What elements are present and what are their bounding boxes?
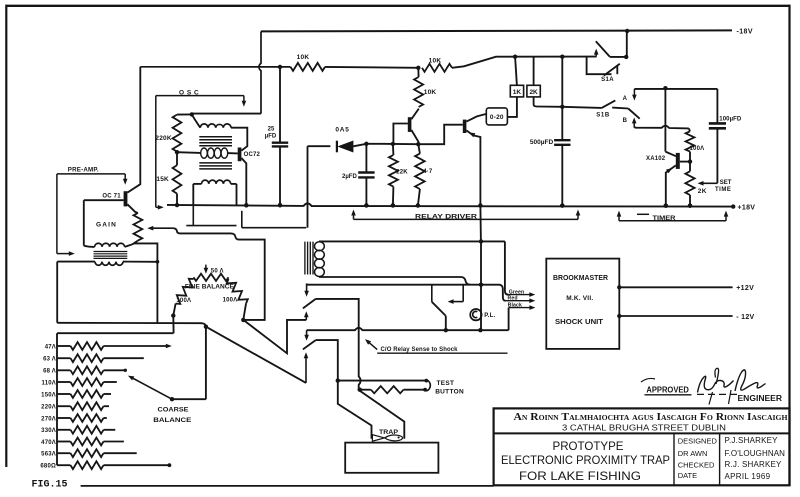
svg-text:XA102: XA102 [646, 156, 666, 162]
svg-text:1K: 1K [513, 89, 522, 96]
svg-text:R.J. SHARKEY: R.J. SHARKEY [725, 460, 783, 469]
svg-text:SHOCK UNIT: SHOCK UNIT [555, 319, 604, 326]
svg-text:10K: 10K [424, 89, 437, 96]
svg-text:FOR LAKE FISHING: FOR LAKE FISHING [519, 469, 641, 483]
svg-text:4·7: 4·7 [423, 169, 433, 175]
svg-text:FIG.15: FIG.15 [32, 480, 68, 491]
svg-text:CHECKED: CHECKED [678, 460, 715, 469]
svg-text:150Λ: 150Λ [41, 392, 56, 398]
svg-text:220Λ: 220Λ [41, 405, 56, 411]
svg-text:F.O'LOUGHNAN: F.O'LOUGHNAN [725, 449, 786, 458]
svg-text:220K: 220K [155, 135, 171, 142]
svg-text:DATE: DATE [678, 471, 697, 480]
svg-text:APRIL 1969: APRIL 1969 [725, 472, 771, 481]
svg-text:APPROVED: APPROVED [646, 385, 689, 394]
svg-text:25: 25 [268, 126, 275, 132]
svg-text:DESIGNED: DESIGNED [678, 437, 718, 446]
svg-text:Red: Red [508, 296, 518, 302]
svg-text:µFD: µFD [265, 133, 277, 139]
svg-text:PROTOTYPE: PROTOTYPE [553, 439, 624, 453]
svg-text:An Roinn Talmhaiochta agus I: An Roinn Talmhaiochta agus Iascaigh Fo R… [514, 412, 789, 423]
svg-text:47Λ: 47Λ [45, 344, 56, 350]
svg-text:P.L.: P.L. [484, 313, 495, 319]
svg-text:ENGINEER: ENGINEER [738, 394, 783, 403]
svg-text:68 Λ: 68 Λ [43, 369, 56, 375]
svg-text:100Λ: 100Λ [223, 297, 238, 303]
svg-text:3 CATHAL BRUGHA STREET DUBL: 3 CATHAL BRUGHA STREET DUBLIN [562, 424, 726, 433]
svg-text:A: A [623, 96, 628, 102]
svg-text:10K: 10K [297, 54, 310, 61]
svg-text:OC72: OC72 [244, 152, 261, 158]
svg-text:270Λ: 270Λ [41, 416, 56, 422]
svg-text:63 Λ: 63 Λ [43, 357, 56, 363]
svg-text:100µFD: 100µFD [719, 117, 742, 123]
svg-text:Green: Green [509, 289, 525, 295]
svg-text:680Ω: 680Ω [40, 464, 56, 470]
svg-text:110Λ: 110Λ [42, 380, 56, 386]
svg-text:563Λ: 563Λ [41, 452, 56, 458]
svg-text:-18V: -18V [737, 28, 753, 35]
svg-text:2K: 2K [529, 89, 538, 96]
svg-text:OC 71: OC 71 [102, 193, 121, 199]
svg-text:BROOKMASTER: BROOKMASTER [553, 275, 608, 282]
svg-text:TIME: TIME [715, 187, 731, 193]
svg-text:- 12V: - 12V [736, 314, 754, 321]
svg-text:TIMER: TIMER [653, 216, 677, 222]
svg-text:+12V: +12V [736, 285, 754, 292]
svg-text:BUTTON: BUTTON [435, 389, 464, 396]
svg-text:2K: 2K [698, 188, 707, 195]
svg-text:10K: 10K [429, 58, 442, 65]
svg-text:15K: 15K [156, 176, 169, 183]
svg-text:330Λ: 330Λ [41, 428, 56, 434]
svg-text:ELECTRONIC PROXIMITY TRAP: ELECTRONIC PROXIMITY TRAP [501, 453, 670, 467]
svg-text:+18V: +18V [738, 205, 756, 212]
svg-text:GAIN: GAIN [96, 222, 117, 229]
svg-text:COARSE: COARSE [158, 407, 190, 414]
svg-text:500µFD: 500µFD [530, 139, 554, 146]
svg-text:TEST: TEST [437, 380, 455, 387]
svg-text:470Λ: 470Λ [41, 440, 56, 446]
svg-text:P.J.SHARKEY: P.J.SHARKEY [725, 436, 779, 445]
svg-text:Black: Black [508, 302, 522, 308]
svg-text:M.K. VII.: M.K. VII. [566, 295, 593, 302]
svg-text:0A5: 0A5 [335, 127, 349, 134]
svg-text:RELAY DRIVER: RELAY DRIVER [415, 214, 478, 220]
svg-text:100Λ: 100Λ [176, 298, 191, 304]
svg-text:PRE-AMP.: PRE-AMP. [68, 166, 99, 173]
svg-text:100Λ: 100Λ [690, 146, 705, 152]
svg-text:S1A: S1A [601, 77, 614, 83]
svg-text:BALANCE: BALANCE [153, 417, 192, 424]
svg-text:SET: SET [720, 180, 732, 186]
svg-text:2µFD: 2µFD [342, 174, 357, 180]
svg-text:S1B: S1B [596, 113, 610, 119]
svg-text:B: B [623, 118, 628, 124]
svg-text:0-20: 0-20 [490, 114, 504, 121]
svg-text:C/O Relay Sense to Shock: C/O Relay Sense to Shock [381, 347, 459, 353]
svg-text:DR AWN: DR AWN [678, 449, 708, 458]
svg-text:22K: 22K [396, 170, 408, 176]
